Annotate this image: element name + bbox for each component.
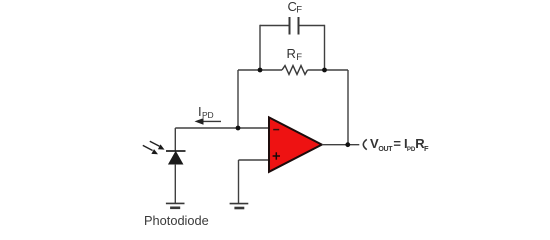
svg-text:OUT: OUT <box>378 146 393 153</box>
wire non-inverting input horizontal <box>239 159 270 161</box>
node A junction dot (feedback left on resistor wire) <box>258 68 263 73</box>
wire cap branch right vertical <box>324 25 326 70</box>
svg-text:F: F <box>296 52 302 63</box>
node B junction dot (feedback right on resistor wire) <box>322 68 327 73</box>
wire feedback right leg vertical <box>347 70 349 145</box>
wire resistor level left segment <box>238 69 282 71</box>
svg-text:F: F <box>424 144 429 153</box>
node C junction dot (inverting input) <box>236 126 241 131</box>
ground symbol photodiode <box>166 203 185 207</box>
wire resistor level right segment <box>308 69 349 71</box>
current arrow IPD pointing left <box>195 118 222 125</box>
wire cap branch left vertical <box>259 25 261 70</box>
label IPD <box>198 104 213 120</box>
op-amp U1 triangle <box>269 117 322 171</box>
svg-text:Photodiode: Photodiode <box>144 213 209 227</box>
label VOUT = IPD RF <box>370 136 429 153</box>
light arrow 1 into photodiode <box>150 141 165 149</box>
wire inverting input horizontal <box>175 127 269 129</box>
op-amp minus marking <box>273 129 279 131</box>
svg-text:PD: PD <box>202 110 213 120</box>
output terminal arc <box>363 139 367 149</box>
node D junction dot (output) <box>345 142 350 147</box>
label CF <box>288 0 303 16</box>
op-amp plus marking <box>273 152 280 159</box>
photodiode D1 symbol <box>166 151 186 164</box>
ground symbol op-amp positive input <box>230 204 249 208</box>
label RF <box>287 46 303 63</box>
capacitor CF plates <box>290 17 299 35</box>
light arrow 2 into photodiode <box>143 145 158 154</box>
wire op-amp output <box>322 144 360 146</box>
wire feedback left leg vertical <box>237 70 239 128</box>
wire feedback top-left horizontal (cap branch) <box>260 25 290 27</box>
svg-text:=: = <box>393 136 401 151</box>
svg-text:F: F <box>296 5 302 16</box>
wire feedback top-right horizontal (cap branch) <box>299 25 325 27</box>
resistor RF zigzag <box>282 66 308 75</box>
wire photodiode anode to ground <box>174 164 176 203</box>
svg-text:R: R <box>287 46 296 61</box>
wire photodiode vertical (cathode side) <box>174 128 176 151</box>
wire non-inverting to ground vertical <box>238 160 240 204</box>
